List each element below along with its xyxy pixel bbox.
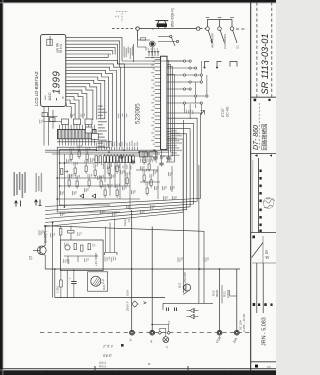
terminal J3 COM xyxy=(217,330,222,335)
wire Q1 collector up xyxy=(44,225,46,245)
resistor network row xyxy=(104,156,107,163)
component C10 xyxy=(146,188,148,194)
svg-text:U-#5F→10.4Ω: U-#5F→10.4Ω xyxy=(242,314,246,332)
aux dashed mark xyxy=(116,11,128,13)
wire LCD segment s2 xyxy=(66,41,120,55)
svg-text:LCD LD-B3973AZ: LCD LD-B3973AZ xyxy=(34,71,39,106)
svg-text:SR 1113-03-01: SR 1113-03-01 xyxy=(260,34,270,95)
svg-text:A⇅C: A⇅C xyxy=(48,92,52,101)
node option line right xyxy=(197,27,200,30)
capacitor C3 xyxy=(132,160,134,162)
svg-text:≈≈: ≈≈ xyxy=(267,365,271,369)
wire shunt vertical 2 xyxy=(236,269,238,330)
rotary switch jumper bracket xyxy=(208,20,233,27)
ADC IC U1 right pin stubs xyxy=(167,131,170,133)
current shunt block outline xyxy=(163,303,213,310)
ADC IC U1 left pins xyxy=(155,59,161,61)
wire LCD segment s12 xyxy=(66,74,109,147)
wire Q1 emitter down xyxy=(44,255,46,269)
title block dashed column lines xyxy=(256,2,258,97)
wire LCD segment s6 xyxy=(66,53,111,56)
wire header VDD to U1 xyxy=(117,55,154,65)
driver side box 2 xyxy=(92,134,99,140)
wire diamond1 to fuse holder xyxy=(160,328,166,336)
ADC IC U1 right pin labels xyxy=(170,130,177,131)
svg-text:+: + xyxy=(69,276,71,280)
verticals below resistor row xyxy=(104,163,106,182)
diode D31 xyxy=(190,308,194,312)
svg-text:5̆ ¥ 5°: 5̆ ¥ 5° xyxy=(103,354,113,358)
extra label smudges analog xyxy=(65,159,68,163)
svg-text:⋍≈: ⋍≈ xyxy=(44,95,48,100)
terminal J1 V xyxy=(130,330,135,335)
wire LCD segment s10 xyxy=(66,67,117,147)
wires bus to bracket xyxy=(105,227,107,253)
DC-DC converter box xyxy=(61,240,104,271)
jumper parts below staircase xyxy=(62,119,69,125)
converter area labels xyxy=(39,230,40,236)
analog h-wire 3 xyxy=(57,177,112,179)
bus left drop to Q1 xyxy=(44,227,46,246)
trimmer VR1 xyxy=(61,169,63,175)
boxed component group right xyxy=(140,152,148,158)
bus left drop to GND rail xyxy=(52,223,54,298)
title block divider line xyxy=(251,96,276,98)
matrix bottom labels xyxy=(186,110,187,114)
resistor network labels below xyxy=(103,165,104,170)
analog h-wire 2 xyxy=(60,162,100,164)
component R12 xyxy=(100,181,102,187)
wire LCD segment s8 xyxy=(66,61,125,147)
rotary contact P3 xyxy=(230,27,234,31)
resistor R27a above converter xyxy=(59,229,62,236)
LCD driver pins bottom xyxy=(59,139,61,146)
capacitor C2 xyxy=(121,155,123,157)
diode D32 xyxy=(190,314,194,318)
rail VSS horizontal xyxy=(45,268,240,270)
svg-text:523085: 523085 xyxy=(135,103,142,124)
ADC IC U1 top bypass capacitors xyxy=(148,51,150,57)
svg-text:S1: S1 xyxy=(236,45,240,49)
capacitor C31 xyxy=(166,308,168,312)
component R5 xyxy=(86,154,88,160)
ADC IC U1 body xyxy=(161,56,167,149)
component C9 xyxy=(143,175,145,181)
svg-text:+⊤: +⊤ xyxy=(115,15,120,19)
wire shunt vertical 1 xyxy=(219,269,221,330)
svg-text:900Ω: 900Ω xyxy=(215,289,219,297)
transistor Q2 dot xyxy=(150,42,154,46)
component C8 xyxy=(148,164,150,170)
note block text 2 xyxy=(36,173,37,192)
wire header CLK to U1 xyxy=(120,55,155,68)
component R15 xyxy=(150,180,152,186)
wire LCD segment s7 xyxy=(66,55,108,58)
wire LCD segment s13 xyxy=(66,77,105,119)
component R10 xyxy=(76,181,78,187)
component R8 xyxy=(94,170,96,176)
signal group bracket xyxy=(105,253,118,256)
svg-text:16: 16 xyxy=(127,218,131,222)
wire label column at staircase foot xyxy=(98,106,103,107)
component R4 xyxy=(78,151,80,157)
wires into driver top xyxy=(59,125,61,130)
transformer T2 xyxy=(88,272,108,291)
component R3 xyxy=(70,154,72,160)
svg-text:ET-57: ET-57 xyxy=(221,108,225,117)
fuse contact diamond 1 xyxy=(158,331,161,334)
svg-text:4PJ 46-BP: 4PJ 46-BP xyxy=(211,32,215,48)
resistor R2b xyxy=(50,118,56,122)
arrow at bus top xyxy=(201,111,205,115)
mid horizontal wires right xyxy=(130,155,153,157)
resistor R27b above converter xyxy=(68,231,75,234)
bus wire net B1 xyxy=(45,113,201,207)
component R11 xyxy=(88,180,90,186)
svg-text:DC-VΩ: DC-VΩ xyxy=(226,106,230,117)
bus wire to lower block 2 xyxy=(44,226,204,304)
svg-text:+: + xyxy=(171,23,173,27)
segment bus tick labels xyxy=(96,147,98,150)
fuse F1 xyxy=(132,301,138,307)
svg-text:Q1: Q1 xyxy=(29,255,33,260)
wire V input vertical xyxy=(131,210,133,330)
note block text xyxy=(14,172,16,196)
component C7 xyxy=(143,157,145,163)
svg-text:≦ 4×: ≦ 4× xyxy=(264,249,269,259)
component R9 xyxy=(68,180,70,186)
wire option dashed segment left xyxy=(112,28,136,30)
component C6 xyxy=(126,178,128,184)
svg-text:D7- 860: D7- 860 xyxy=(253,125,260,150)
transistor Q1 xyxy=(38,246,47,255)
svg-text:COL/4PBA: COL/4PBA xyxy=(223,34,227,49)
fuse contact diamond 2 xyxy=(167,331,170,334)
rotary contact P2 xyxy=(218,27,222,31)
junction dots xyxy=(64,162,66,164)
rotary switch contact matrix xyxy=(183,60,185,62)
diode D1 xyxy=(80,194,84,198)
fuse holder F1b xyxy=(163,337,169,343)
svg-text:Q31: Q31 xyxy=(178,282,182,288)
title block scale box with diagonal xyxy=(252,236,255,239)
svg-text:1° 5ʹ 3: 1° 5ʹ 3 xyxy=(103,345,113,349)
rotary switch arm S1-1 xyxy=(208,30,212,43)
rotary switch arm S1-2 xyxy=(220,30,224,43)
analog h-wire 4 xyxy=(60,185,130,187)
wire U1 top-right pin bus 3 xyxy=(160,67,172,157)
capacitor C32 xyxy=(174,308,176,312)
svg-text:+: + xyxy=(152,28,154,32)
wire shunt jog xyxy=(230,290,237,296)
wire aux top xyxy=(138,30,146,50)
svg-text:B: B xyxy=(61,96,65,98)
wire box to GND rail xyxy=(66,271,68,298)
title block divider line 2 xyxy=(251,153,276,155)
aux switch contact SB xyxy=(176,40,178,42)
wire LCD segment s16 xyxy=(66,87,93,120)
vertical stubs below chip xyxy=(155,150,157,156)
title block stamp row 2 xyxy=(253,303,256,306)
bus wire net B2 xyxy=(45,118,197,210)
analog mesh box left xyxy=(57,147,120,212)
wires LCD bottom parts to driver xyxy=(47,116,58,118)
LCD display module LCD1 body xyxy=(41,35,66,107)
wire LCD segment s18 xyxy=(66,93,83,118)
wire LCD segment s4 xyxy=(66,47,115,54)
wire header BP to switch matrix xyxy=(122,55,183,62)
terminal row dashed line xyxy=(40,332,251,334)
wire option dashed segment right xyxy=(200,28,206,30)
staircase terminal labels xyxy=(118,114,119,119)
wire LCD segment s15 xyxy=(66,84,97,120)
wire LCD segment s14 xyxy=(66,80,101,119)
svg-text:1.5M: 1.5M xyxy=(56,286,60,293)
matrix vertical links xyxy=(200,61,202,82)
bus junction dots xyxy=(96,149,98,151)
svg-text:回路接続図: 回路接続図 xyxy=(261,124,269,151)
title block approval table marks xyxy=(259,170,261,173)
svg-text:250V F: 250V F xyxy=(126,301,130,311)
wire LCD segment s3 xyxy=(66,44,117,54)
title block stamp row xyxy=(255,154,258,157)
svg-text:JRN - 5,083: JRN - 5,083 xyxy=(262,317,268,346)
buzzer BZ1 body xyxy=(157,24,168,27)
wire node to chip-top resistor xyxy=(138,30,150,40)
ADC IC U1 pin number labels xyxy=(151,57,154,58)
label column C31 xyxy=(178,257,179,262)
rail GND horizontal xyxy=(55,297,165,299)
wire diamond2 jog to COM feed xyxy=(152,324,168,331)
bus wire net B3 xyxy=(45,123,194,214)
LCD driver IC U2 body xyxy=(58,129,97,138)
aux switch contact SA xyxy=(170,35,172,37)
driver lower rail xyxy=(57,141,112,143)
wire LCD segment s19 xyxy=(66,97,79,119)
bus wire to lower block 1 xyxy=(198,165,200,303)
component C4 xyxy=(108,168,110,174)
wire LCD segment s9 xyxy=(66,64,121,147)
wire U1 top-right pin bus 4 xyxy=(166,75,174,163)
header side wire xyxy=(132,44,134,62)
terminal J2 mA xyxy=(150,330,155,335)
component R14 xyxy=(116,190,118,196)
resistor R2a xyxy=(42,113,48,117)
segment bus horizontal lines xyxy=(45,149,169,151)
wire LCD segment s17 xyxy=(66,90,87,118)
svg-text:M k Ω: M k Ω xyxy=(59,43,63,52)
wire U1 top-right pin bus 1 xyxy=(167,61,169,151)
wire LCD segment s5 xyxy=(66,51,113,55)
component R13 xyxy=(104,190,106,196)
bus wire net B5 xyxy=(45,134,187,223)
wire LCD segment s21 xyxy=(66,103,71,118)
matrix drop wires xyxy=(184,104,186,113)
resistor network pair left xyxy=(95,156,98,163)
wire COM vertical xyxy=(151,227,153,331)
svg-text:0.5A: 0.5A xyxy=(126,290,130,296)
LCD header pin labels xyxy=(124,47,125,58)
bus wire to lower block 3 xyxy=(182,120,184,293)
rotary contact P1 xyxy=(206,27,210,31)
title block approval table column line xyxy=(257,158,259,233)
component R7 xyxy=(85,166,87,172)
off-page dashed stub xyxy=(236,28,247,30)
svg-text:+9V 006P: +9V 006P xyxy=(94,253,98,266)
analog rail F xyxy=(63,154,65,207)
wire LCD segment s11 xyxy=(66,70,113,146)
title block inner column lines xyxy=(252,262,276,264)
converter box parts xyxy=(65,245,70,250)
matrix feed wires xyxy=(167,60,190,62)
analog h-wire 5 xyxy=(57,198,140,200)
svg-text:2SC945: 2SC945 xyxy=(183,272,187,283)
resistor R1 near node xyxy=(141,38,146,40)
caps below chip xyxy=(155,156,157,158)
terminal J4 10A xyxy=(234,330,239,335)
wire option line solid xyxy=(139,28,196,30)
svg-text:MANU: MANU xyxy=(48,36,52,45)
note arrows xyxy=(15,201,18,207)
svg-text:4 h λ: 4 h λ xyxy=(99,364,106,368)
title block frame line xyxy=(250,2,252,370)
capacitor C22 polarized xyxy=(73,269,75,282)
title block bottom divider xyxy=(251,361,276,363)
svg-text:2-4: 2-4 xyxy=(101,279,105,285)
transistor Q31 xyxy=(184,284,191,291)
switch lower contacts xyxy=(205,62,210,67)
wire LCD segment s1 xyxy=(66,38,122,55)
diode D2 xyxy=(92,194,96,198)
bus wire net B6 xyxy=(45,139,183,227)
svg-text:1T: 1T xyxy=(167,320,171,324)
resistor R29 vertical xyxy=(60,280,63,287)
rotary switch arm S1-3 xyxy=(233,30,237,43)
driver side box 1 xyxy=(86,127,93,133)
bus wire net B4 xyxy=(45,129,190,219)
wire U1 top-right pin bus 2 xyxy=(167,65,171,153)
title block revision marks xyxy=(254,99,257,102)
node option line left xyxy=(136,27,139,30)
label column R30 xyxy=(204,257,205,262)
wire LCD segment s20 xyxy=(66,100,75,119)
LCD annunciator MANU box xyxy=(47,39,52,45)
title block stamp scribble xyxy=(263,198,275,208)
buzzer BZ1 leads xyxy=(158,27,160,29)
component C5 xyxy=(116,166,118,172)
wire chip top feed xyxy=(145,56,161,58)
component R6 xyxy=(74,168,76,174)
backplane wires from LCD bottom xyxy=(43,107,45,146)
